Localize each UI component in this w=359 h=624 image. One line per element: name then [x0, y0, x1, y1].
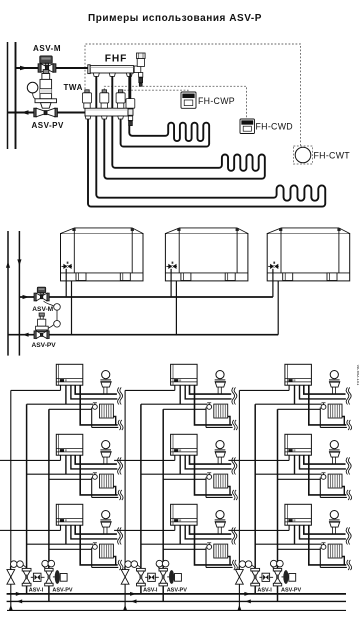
svg-text:Примеры использования ASV-P: Примеры использования ASV-P [88, 13, 262, 24]
riser supply column 1 [26, 404, 28, 594]
valve assembly column 1 [7, 560, 73, 610]
valve ASV-PV with impulse capillary [27, 70, 57, 117]
end valve on return manifold [126, 99, 135, 126]
manifold FHF supply bar [88, 65, 134, 74]
valve ASV-M [38, 56, 56, 72]
flow arrow supply main col2 [130, 592, 136, 596]
wire TWA2 to FH-CWD dashed [104, 86, 246, 119]
svg-text:ASV-PV: ASV-PV [32, 342, 57, 349]
flow arrow right [23, 295, 30, 299]
valve assembly column 2 [121, 560, 187, 610]
svg-text:TWA: TWA [64, 83, 83, 92]
thermostat FH-CWP [181, 92, 196, 108]
return main riser (left inner) [15, 42, 17, 149]
riser return column 3 [277, 409, 279, 601]
return bottom main [7, 600, 346, 602]
apartment unit col1 floor1 [11, 364, 123, 430]
flow arrow up [6, 262, 10, 268]
svg-text:FH-CWP: FH-CWP [198, 96, 235, 106]
valve assembly column 3 [236, 560, 302, 610]
flow arrow supply main col1 [16, 592, 22, 596]
bypass pipe manifold right end [129, 73, 131, 99]
flow arrow down [17, 259, 21, 265]
svg-text:FH-CWT: FH-CWT [314, 151, 351, 161]
air handling unit 2 [165, 228, 248, 335]
riser supply column 3 [254, 404, 256, 594]
air handling unit 3 [267, 228, 350, 335]
supply bottom main [7, 593, 346, 595]
thermostat FH-CWT [294, 146, 313, 164]
svg-text:ASV-M: ASV-M [32, 306, 53, 313]
riser drop column 1 [10, 390, 12, 610]
flow arrow return main col1 [17, 599, 23, 603]
wire floor2 feed extension col1 [0, 459, 11, 461]
heating coil 2 supply-return loop [104, 76, 265, 178]
apartment unit col3 floor3 [239, 504, 351, 570]
thermostat FH-CWD [240, 119, 255, 134]
actuator TWA 1 [83, 90, 92, 108]
manifold outlet stubs [93, 73, 132, 76]
apartment unit col1 floor2 [11, 434, 123, 500]
wire floor2 feed extension col3 [228, 459, 239, 461]
valve ASV-M middle [34, 287, 49, 301]
supply main riser (left outer) [7, 42, 9, 149]
heating coil 1 supply-return loop [121, 76, 210, 146]
actuator TWA 3 [116, 90, 125, 108]
apartment unit col2 floor1 [125, 364, 237, 430]
actuator TWA 2 [100, 90, 109, 108]
air handling unit 1 [61, 228, 144, 335]
riser drop column 3 [238, 390, 240, 610]
apartment unit col1 floor3 [11, 504, 123, 570]
supply branch pipe [19, 296, 273, 298]
svg-text:ASV-PV: ASV-PV [32, 121, 65, 130]
wire floor3 feed extension col1 [0, 529, 11, 531]
return branch pipe [8, 334, 278, 336]
flow arrow left [21, 110, 29, 115]
riser return column 2 [162, 409, 164, 601]
wire TWA3 to FH-CWP dashed [121, 90, 188, 92]
svg-text:FHF: FHF [105, 53, 128, 64]
supply pipe [16, 67, 90, 69]
return pipe [8, 112, 87, 114]
apartment unit col3 floor1 [239, 364, 351, 430]
apartment unit col3 floor2 [239, 434, 351, 500]
valve ASV-PV middle [34, 313, 49, 339]
return manifold outlet stubs [85, 116, 123, 119]
riser supply column 2 [140, 404, 142, 594]
wire floor2 feed extension col2 [114, 459, 125, 461]
apartment unit col2 floor2 [125, 434, 237, 500]
return main riser middle [7, 231, 9, 356]
flow arrow left [23, 333, 29, 337]
supply main riser middle [18, 231, 20, 356]
apartment unit col2 floor3 [125, 504, 237, 570]
air vent on FHF [134, 53, 145, 86]
manifold FHF return bar [85, 108, 133, 116]
wire room-boundary dashed left [85, 44, 301, 146]
impulse tube with coils [44, 301, 61, 328]
flow arrow return main col3 [245, 599, 251, 603]
flow arrow right [20, 66, 28, 71]
wire floor3 feed extension col2 [114, 529, 125, 531]
svg-text:FH-CWD: FH-CWD [256, 122, 293, 132]
wire floor3 feed extension col3 [228, 529, 239, 531]
svg-text:ASV-M: ASV-M [33, 44, 61, 53]
riser return column 1 [48, 409, 50, 601]
riser drop column 2 [124, 390, 126, 610]
circulation bottom main [7, 609, 346, 611]
flow arrow return main col2 [131, 599, 137, 603]
flow arrow supply main col3 [244, 592, 250, 596]
heating coil 3 supply-return loop [88, 76, 325, 206]
